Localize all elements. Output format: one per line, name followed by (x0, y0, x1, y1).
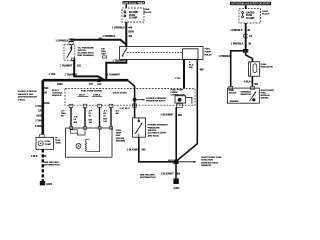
svg-text:1 BLK/WHT: 1 BLK/WHT (160, 113, 174, 116)
motor M1 fuel pump box (36, 137, 54, 149)
meter G1 fuel gauge box (249, 62, 260, 76)
svg-text:DISTRIBUTION: DISTRIBUTION (140, 177, 156, 179)
wire TAN/WHT 120 from oil switch to bus (74, 61, 105, 81)
node ECM pin box 3 (98, 104, 102, 107)
node ECM pin group 86A-F (78, 93, 89, 96)
svg-text:1 TAN/WHT: 1 TAN/WHT (65, 73, 78, 76)
svg-text:MODULE: MODULE (52, 95, 62, 97)
svg-text:PRESSURE: PRESSURE (148, 127, 161, 129)
node connector pins A B oil pressure switch (69, 39, 73, 44)
svg-text:COM-A: COM-A (93, 93, 101, 96)
op-amp U1 electronic control module dashed box (65, 88, 195, 105)
node wire labels col5 (116, 110, 120, 116)
node label 1 PNK/BLK 39 upper (230, 30, 250, 32)
node ECM pin box PS (133, 104, 137, 107)
svg-text:170: 170 (89, 83, 94, 86)
node sender pin left (229, 86, 233, 89)
svg-text:FUEL: FUEL (45, 141, 51, 143)
svg-text:S209: S209 (57, 83, 63, 86)
svg-text:PRESSURE INPUT: PRESSURE INPUT (146, 101, 166, 103)
node ECM left label text (52, 90, 63, 97)
svg-text:BLOCK: BLOCK (144, 12, 152, 14)
svg-text:TANK: TANK (55, 142, 61, 145)
node sender right label text (261, 90, 275, 100)
svg-text:BLOCK: BLOCK (262, 14, 270, 16)
svg-text:(GAGE): (GAGE) (261, 97, 269, 100)
svg-text:PLA: PLA (189, 64, 194, 67)
node label 2 PPL 900 (189, 62, 194, 69)
resistor R2 fuel gauge sender box (227, 88, 259, 103)
svg-text:(SERVICE DATA: (SERVICE DATA (201, 161, 218, 164)
node module pin 2 (84, 127, 87, 130)
svg-text:.5 LT BLU: .5 LT BLU (120, 108, 130, 110)
svg-text:POWER STEERING: POWER STEERING (146, 98, 166, 100)
svg-text:GRA: GRA (61, 112, 66, 115)
svg-text:1 BLK/WHT: 1 BLK/WHT (127, 148, 141, 151)
wire stub title box to fuse (125, 4, 127, 8)
node module pin 1 (70, 127, 73, 130)
wire relay output to bus (106, 59, 126, 80)
node power steering switch label text (148, 125, 168, 138)
svg-text:2 BLK): 2 BLK) (18, 99, 25, 101)
svg-text:1 PNK/BLK: 1 PNK/BLK (219, 56, 231, 58)
svg-text:450: 450 (176, 173, 181, 176)
node HOT AT ALL TIMES title box (123, 1, 146, 5)
svg-text:SEE GROUND: SEE GROUND (44, 162, 59, 164)
svg-text:10 AMP: 10 AMP (246, 17, 255, 20)
svg-text:1 BLK: 1 BLK (31, 155, 38, 158)
wire relay input from fuse into box top (125, 44, 127, 48)
node fuel gauge label (261, 64, 273, 69)
svg-text:FUEL: FUEL (261, 64, 267, 66)
node electronic fuel injection note (201, 157, 222, 167)
svg-text:ENG RUNNING): ENG RUNNING) (78, 55, 95, 57)
node sender pin right (251, 86, 255, 89)
node station wagon note text (18, 90, 38, 101)
node junction splice on bus (97, 79, 101, 82)
node ECM pin box prime (176, 104, 182, 107)
node wire labels col3 (89, 111, 93, 125)
node connector C2 (244, 34, 253, 38)
svg-text:120: 120 (77, 65, 82, 68)
svg-text:INDICATOR: INDICATOR (261, 66, 273, 69)
wire DK GRN 465 from relay coil down (176, 59, 197, 161)
node relay left tiny text (101, 48, 107, 58)
svg-text:SENDER: SENDER (230, 101, 239, 103)
svg-text:PUMP: PUMP (45, 144, 52, 146)
node wire labels col2 (74, 117, 78, 124)
svg-text:1 TAN: 1 TAN (35, 120, 42, 123)
svg-text:FUSE: FUSE (129, 15, 136, 17)
connector J1 fuel pump prime connector (175, 96, 192, 104)
svg-text:ELECTRONIC FUEL: ELECTRONIC FUEL (201, 157, 222, 159)
svg-text:120: 120 (38, 109, 43, 112)
svg-text:AND IDLE): AND IDLE) (148, 134, 159, 137)
svg-text:1 ORN/BLK: 1 ORN/BLK (103, 35, 116, 38)
svg-text:1 BLK/WHT: 1 BLK/WHT (161, 173, 175, 176)
svg-text:G402: G402 (174, 187, 181, 190)
wire ECM pin 3 down (99, 107, 101, 126)
svg-text:WAGON 2 TAN: WAGON 2 TAN (18, 93, 34, 96)
svg-text:4 ORN: 4 ORN (35, 125, 43, 128)
node wire labels col4 (103, 111, 107, 123)
svg-text:E/COMP: E/COMP (129, 12, 139, 14)
node ECM pin group COM-A (92, 93, 102, 96)
svg-text:1 TAN: 1 TAN (49, 73, 56, 76)
svg-text:SOLID STATE: SOLID STATE (113, 92, 128, 95)
svg-text:4 BLK-1: 4 BLK-1 (244, 81, 253, 84)
wire left column to fuel pump (41, 80, 44, 134)
svg-text:S208: S208 (128, 31, 134, 34)
svg-text:15 AMP: 15 AMP (129, 17, 138, 20)
svg-text:HAR: HAR (101, 52, 106, 55)
svg-text:1 TAN/WHT: 1 TAN/WHT (113, 60, 126, 63)
svg-text:POWER STEERING: POWER STEERING (148, 125, 168, 127)
wire 2 PPL from relay to prime connector (183, 59, 185, 88)
wire fuel pump to ground (42, 149, 44, 181)
node ECM pin box 2 (83, 104, 87, 107)
svg-text:G400: G400 (46, 183, 53, 186)
wire ECM pin 4 down (110, 107, 112, 126)
svg-text:GAUGE: GAUGE (229, 92, 237, 95)
node module right label text (116, 130, 126, 142)
wire arrow to EFI (179, 161, 196, 163)
svg-text:S231: S231 (36, 115, 42, 118)
ground G400 terminal (40, 181, 53, 186)
node label 1 BLK 150 (31, 155, 47, 158)
wire main bus horizontal (43, 79, 129, 82)
wire ORN/BLK 440 from ECM fuse down (125, 22, 127, 44)
svg-text:500: 500 (44, 87, 49, 90)
svg-text:RESISTOR: RESISTOR (240, 94, 251, 96)
svg-text:1 ORN/BLK: 1 ORN/BLK (112, 27, 125, 30)
node label 1 ORN/BLK 440 upper (112, 27, 133, 30)
svg-text:PUMP: PUMP (205, 51, 212, 53)
svg-text:86A-F: 86A-F (79, 93, 86, 96)
svg-text:465: 465 (200, 68, 205, 71)
node module pin 4 (110, 127, 113, 130)
svg-text:440: 440 (128, 35, 133, 38)
wire branch to oil pressure switch (71, 40, 126, 45)
svg-text:FUEL PUMP SIGNAL: FUEL PUMP SIGNAL (81, 89, 103, 92)
wire branch left to sender (231, 51, 243, 87)
node ECM pin box 1 (69, 104, 73, 107)
wire junction to ground G402 (175, 164, 177, 178)
svg-text:1 PPL: 1 PPL (175, 78, 182, 80)
svg-text:(CLOSED A SHIFT: (CLOSED A SHIFT (148, 132, 167, 135)
fuse F2 gages fuse dashed box (239, 9, 261, 23)
svg-text:SEE GROUND: SEE GROUND (140, 175, 155, 177)
svg-text:440: 440 (99, 37, 104, 40)
svg-text:1 TAN: 1 TAN (35, 105, 42, 108)
svg-text:1 PNK/BLK: 1 PNK/BLK (230, 30, 242, 32)
node HOT IN RUN title box (230, 2, 271, 6)
svg-text:EXCEPT STATION: EXCEPT STATION (18, 90, 37, 93)
node oil pressure switch label text (78, 47, 95, 57)
node module left tiny label (55, 137, 61, 144)
svg-text:S211: S211 (168, 160, 174, 162)
node fuel pump connector pin (40, 134, 45, 137)
wire ECM pin 1 down (70, 107, 72, 126)
switch S2 power steering pressure switch box (133, 118, 146, 137)
svg-text:DISTRIBUTION: DISTRIBUTION (44, 165, 60, 167)
svg-text:1 TAN/WHT: 1 TAN/WHT (107, 73, 120, 76)
resistor R1 fuel sender module box (66, 128, 113, 157)
node FUSE BLOCK label top center (144, 9, 152, 14)
svg-text:AN: AN (103, 112, 107, 115)
node wire labels between ECM and module col1 (61, 111, 66, 118)
wire gauge to sender (251, 76, 253, 86)
node module pin 3 (98, 127, 101, 130)
svg-text:FUSE: FUSE (246, 15, 253, 17)
svg-text:SENSOR): SENSOR) (201, 165, 211, 167)
node junction dot PS tap (133, 98, 137, 102)
node ECM pin box 4 (109, 104, 113, 107)
node junction splice right column (243, 49, 248, 53)
svg-text:SENDER): SENDER) (116, 140, 126, 142)
svg-text:TANK: TANK (116, 132, 122, 135)
wire PS switch to junction (139, 137, 174, 162)
svg-text:A-C: A-C (116, 110, 120, 113)
svg-text:GAGES: GAGES (246, 11, 255, 14)
svg-text:1 ORN/BLK: 1 ORN/BLK (56, 39, 69, 42)
node label 1 PNK/BLK 39 (231, 43, 252, 46)
svg-text:HOT IN RUN, BULB TEST OR START: HOT IN RUN, BULB TEST OR START (231, 3, 270, 6)
svg-text:1 PNK/BLK: 1 PNK/BLK (231, 43, 244, 46)
node label 1 BLK/WHT 450 prime (160, 113, 182, 117)
svg-text:INJECTION: INJECTION (201, 160, 213, 162)
wire arrow to power steering text (137, 99, 145, 101)
node fuse block label right (262, 11, 270, 16)
wire PS down through ECM pin (134, 102, 136, 118)
wire power steering tap from bus (128, 81, 134, 98)
svg-text:440: 440 (128, 27, 133, 30)
wire PNK/BLK 39 down from gages fuse (245, 5, 247, 49)
wire prime connector down to junction (175, 107, 177, 162)
node fuel pump relay label (205, 48, 213, 56)
svg-text:SWITCH: SWITCH (148, 130, 157, 132)
relay K1 fuel pump relay box (120, 47, 204, 60)
ground G402 terminal (173, 178, 180, 190)
svg-text:VARIABLE: VARIABLE (240, 90, 251, 93)
node see ground distribution note (44, 162, 60, 167)
svg-text:LK: LK (74, 119, 77, 121)
wire ECM pin 2 down (84, 107, 86, 126)
node prime connector text (171, 89, 185, 96)
switch S1 oil pressure switch dashed box (64, 45, 75, 61)
svg-text:FUEL: FUEL (205, 48, 211, 50)
node junction S211 bottom (174, 160, 179, 165)
svg-text:(GAUGE: (GAUGE (116, 137, 125, 140)
svg-text:S229: S229 (44, 102, 50, 105)
node power steering pressure switch feed text (146, 98, 166, 103)
svg-text:RELAY: RELAY (205, 53, 213, 56)
svg-text:450: 450 (178, 114, 183, 117)
wire gauge feed jog (246, 53, 253, 62)
svg-text:150: 150 (42, 155, 47, 158)
svg-text:(STATION WAGON: (STATION WAGON (18, 96, 38, 99)
fuse F1 ECM fuse dashed box (122, 8, 144, 22)
svg-text:1 TAN/WHT: 1 TAN/WHT (60, 65, 73, 68)
svg-text:.5 B: .5 B (74, 117, 78, 119)
node label 1 BLK/WHT 450 ps (127, 148, 146, 151)
svg-text:450: 450 (142, 148, 147, 151)
svg-text:120: 120 (97, 83, 102, 86)
